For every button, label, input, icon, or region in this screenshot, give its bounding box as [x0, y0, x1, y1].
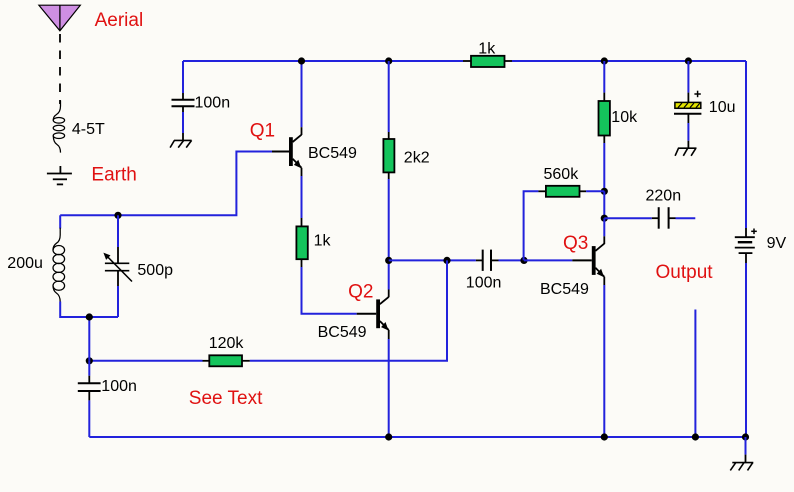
node bottom rail / output stub [692, 433, 699, 440]
wire C4 to Q3 base node [491, 259, 499, 261]
wire Q1 collector drop [301, 61, 303, 127]
capacitor C2 100n (bottom-left) [78, 383, 101, 391]
wire 2k2 bottom to node [388, 172, 390, 179]
resistor R3 1k [296, 226, 307, 259]
svg-text:10u: 10u [709, 99, 736, 116]
wire tank left down [59, 215, 61, 228]
ground (below 10u) [675, 148, 696, 156]
svg-text:120k: 120k [209, 335, 245, 352]
node top rail / 10k [601, 57, 608, 64]
svg-text:10k: 10k [611, 109, 638, 126]
node Q3 collector / 220n [601, 215, 608, 222]
node feedback takeoff [443, 257, 450, 264]
svg-text:Earth: Earth [91, 165, 136, 186]
capacitor C5 220n [659, 207, 669, 229]
wire Q3 collector up [603, 218, 605, 236]
node top rail / 2k2 [385, 57, 392, 64]
wire 560k right leg [580, 190, 587, 192]
svg-text:4-5T: 4-5T [72, 121, 105, 138]
wire Q1 emitter to R3 [301, 176, 303, 218]
wire R3 to Q2 base [302, 259, 357, 314]
wire 120k to left node [203, 360, 210, 362]
wire 10u to ground [687, 114, 689, 148]
transistor Q1 BC549 [272, 135, 302, 176]
svg-text:Q3: Q3 [563, 233, 588, 254]
inductor L1 4-5T [53, 101, 64, 153]
plus sign 10u [694, 91, 700, 98]
resistor R4 2k2 [383, 139, 394, 172]
svg-text:560k: 560k [544, 166, 580, 183]
svg-text:See Text: See Text [189, 388, 263, 409]
capacitor C3 10u (electrolytic) [674, 102, 701, 113]
svg-text:200u: 200u [7, 255, 43, 272]
svg-text:BC549: BC549 [308, 145, 357, 162]
wire node down to C2 [88, 361, 90, 376]
resistor R1 120k [209, 355, 242, 366]
wire top rail [183, 60, 463, 62]
wire 10k bottom [603, 136, 605, 144]
wire battery node to ground [745, 437, 747, 455]
svg-text:2k2: 2k2 [404, 150, 430, 167]
node tank top / 500p [114, 212, 121, 219]
wire 220n left [604, 217, 652, 219]
inductor L2 200u [53, 228, 65, 302]
wire mid node to C4 [389, 259, 476, 261]
wire tank top [60, 152, 272, 216]
node tank bottom [86, 313, 93, 320]
wire output ground stub [694, 310, 696, 438]
node bottom rail / Q2 emitter [385, 433, 392, 440]
svg-text:500p: 500p [137, 262, 173, 279]
wire 500p bottom [117, 270, 119, 286]
transistor Q3 BC549 [572, 244, 604, 285]
wire right rail top [745, 61, 747, 228]
svg-text:1k: 1k [314, 233, 332, 250]
wire C1 to ground [182, 106, 184, 140]
node Q2 collector / 2k2 [385, 257, 392, 264]
wire tank bottom [60, 302, 118, 318]
svg-text:BC549: BC549 [540, 281, 589, 298]
ground (bottom right) [730, 463, 753, 471]
wire aerial feeder (dashed) [59, 34, 61, 104]
resistor R5 10k [599, 101, 610, 136]
capacitor VC1 500p (variable) [105, 263, 129, 270]
wire 10k drop [603, 61, 605, 93]
node top rail / 10u [685, 57, 692, 64]
svg-text:Aerial: Aerial [95, 10, 144, 31]
aerial ANT1 [39, 5, 80, 31]
wire 100n decoupling drop [182, 61, 184, 93]
wire Q2 emitter down [388, 339, 390, 437]
wire battery minus down [745, 253, 747, 263]
plus sign battery [751, 229, 757, 235]
arrow of variable capacitor [103, 253, 132, 282]
wire 500p top [117, 215, 119, 247]
node top rail / Q1 collector [298, 57, 305, 64]
svg-text:100n: 100n [101, 378, 137, 395]
wire node to node [603, 191, 605, 218]
svg-text:9V: 9V [767, 235, 787, 252]
wire bottom rail [89, 436, 746, 438]
ground (below C1) [170, 140, 192, 147]
svg-text:Q2: Q2 [348, 282, 373, 303]
node bottom rail / battery [742, 433, 749, 440]
wire node up to tank bottom [88, 317, 90, 361]
svg-text:Q1: Q1 [250, 121, 275, 142]
node Q3 base [520, 257, 527, 264]
node 10k / 560k [601, 188, 608, 195]
resistor R6 560k [546, 186, 580, 197]
svg-text:100n: 100n [466, 275, 502, 292]
wire 2k2 top drop [388, 61, 390, 132]
resistor R2 1k (top rail) [463, 56, 512, 67]
wire 10u drop [687, 61, 689, 93]
svg-text:1k: 1k [478, 40, 496, 57]
capacitor C4 100n (coupling) [483, 250, 491, 271]
wire 560k left leg [524, 191, 539, 260]
transistor Q2 BC549 [357, 297, 389, 339]
node bottom rail / Q3 emitter [601, 433, 608, 440]
svg-text:BC549: BC549 [318, 324, 367, 341]
node 120k / C2 / tank [86, 357, 93, 364]
wire Q3 emitter down [603, 285, 605, 437]
svg-text:100n: 100n [195, 95, 231, 112]
earth electrode E1 [47, 166, 72, 184]
wire node to Q3 base [524, 259, 572, 261]
svg-text:Output: Output [656, 262, 714, 283]
battery B1 9V [735, 237, 755, 253]
wire feedback down [250, 260, 447, 360]
wire Q2 collector up [388, 260, 390, 289]
capacitor C1 100n (top-left) [172, 100, 195, 107]
wire C2 to bottom rail [88, 391, 90, 400]
wire 220n right (output stub) [669, 217, 676, 219]
svg-text:220n: 220n [646, 187, 682, 204]
